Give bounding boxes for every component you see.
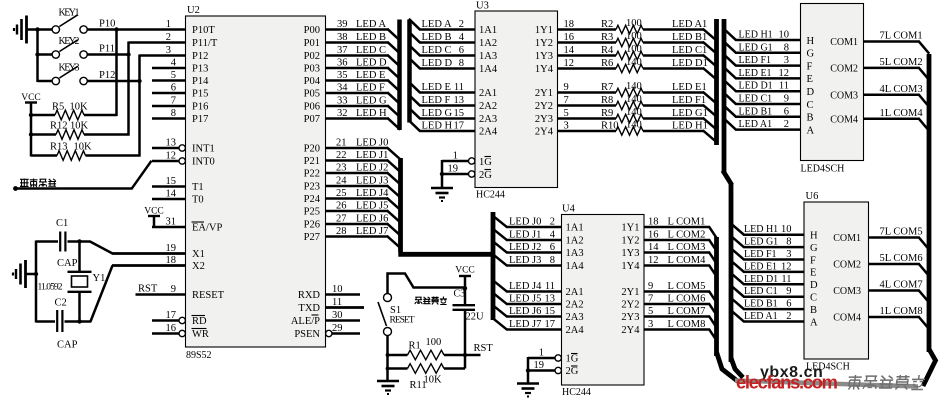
- svg-text:2: 2: [784, 119, 789, 130]
- resistor R3 100 net LED B1: [558, 31, 717, 54]
- svg-text:LED E: LED E: [356, 70, 385, 81]
- wire LED B to U3 pin 4: [409, 32, 475, 43]
- svg-text:LED D1: LED D1: [672, 58, 708, 69]
- pin label U6 A: [810, 317, 818, 328]
- svg-text:15: 15: [454, 108, 465, 119]
- svg-text:140: 140: [626, 57, 642, 68]
- svg-text:8: 8: [171, 108, 176, 119]
- svg-text:LED J5: LED J5: [356, 201, 388, 212]
- wire LED H to U3 pin 17: [409, 120, 475, 131]
- svg-text:17: 17: [166, 310, 177, 321]
- node S1/C3 junction: [463, 286, 467, 290]
- pin label U3 2Y4: [535, 127, 554, 138]
- pin 9 U4 2Y1 net L COM5: [621, 281, 716, 303]
- svg-text:LED C: LED C: [422, 45, 452, 56]
- svg-text:B: B: [810, 305, 817, 316]
- svg-text:4L COM3: 4L COM3: [880, 84, 923, 95]
- svg-text:4: 4: [550, 230, 556, 241]
- svg-text:G: G: [810, 243, 818, 254]
- svg-text:LED G1: LED G1: [739, 42, 773, 53]
- pin 17 U2 RD: [152, 310, 207, 327]
- wire LED D1 to U5 pin 11: [723, 80, 800, 92]
- svg-text:26: 26: [336, 201, 347, 212]
- svg-text:13: 13: [545, 294, 556, 305]
- pin COM4 U5 net 1L COM4: [830, 108, 929, 131]
- svg-text:89S52: 89S52: [186, 350, 212, 361]
- pin 1 U3 1G enable: [442, 151, 492, 169]
- node C1/Y1 junction: [77, 239, 81, 243]
- wire LED B1 to U6 pin 6: [730, 297, 804, 309]
- svg-text:LED G1: LED G1: [744, 237, 778, 248]
- pin 19 U2 X1: [112, 243, 205, 260]
- key switch KEY2: [38, 36, 88, 58]
- svg-text:1Y4: 1Y4: [535, 64, 554, 75]
- wire U3 enable vertical: [441, 160, 444, 188]
- svg-text:2: 2: [459, 19, 464, 30]
- svg-text:COM1: COM1: [833, 233, 861, 244]
- svg-text:LED J7: LED J7: [356, 226, 388, 237]
- svg-text:1Y2: 1Y2: [621, 236, 639, 247]
- svg-text:13: 13: [454, 95, 465, 106]
- svg-text:5: 5: [171, 70, 176, 81]
- svg-text:3: 3: [786, 249, 791, 260]
- svg-text:LED J2: LED J2: [509, 242, 541, 253]
- svg-text:9: 9: [786, 286, 791, 297]
- svg-text:R1: R1: [409, 341, 421, 352]
- pin 23 U2 P22 wire net LED J2: [304, 163, 401, 185]
- svg-text:3: 3: [648, 319, 653, 330]
- svg-text:1G: 1G: [479, 157, 492, 168]
- svg-text:2Y2: 2Y2: [621, 300, 639, 311]
- svg-text:39: 39: [337, 19, 348, 30]
- pin label U6 C: [810, 293, 817, 304]
- bus bar LED-A1 right upper: [722, 19, 727, 172]
- pin label U3 1A1: [479, 25, 497, 36]
- svg-text:1Y1: 1Y1: [535, 25, 553, 36]
- svg-text:P20: P20: [304, 144, 320, 155]
- svg-text:LED J4: LED J4: [356, 188, 389, 199]
- svg-text:2Y4: 2Y4: [621, 325, 640, 336]
- svg-text:15: 15: [166, 176, 177, 187]
- op-amp U2 89S52 body: [186, 5, 326, 361]
- ground (crystal): [13, 260, 36, 288]
- svg-text:L COM5: L COM5: [668, 281, 706, 292]
- wire R5 right vertical: [115, 30, 118, 117]
- svg-text:R13: R13: [50, 142, 68, 153]
- svg-text:12: 12: [648, 255, 659, 266]
- resistor R4 100 net LED C1: [558, 44, 717, 67]
- label pulse input (hanzi): [20, 179, 56, 188]
- pin label U4 2A3: [566, 312, 584, 323]
- svg-text:10: 10: [781, 224, 792, 235]
- wire key rail vertical: [36, 29, 39, 83]
- pin label U4 1A4: [566, 261, 585, 272]
- svg-text:LED H: LED H: [356, 108, 387, 119]
- svg-text:4L COM7: 4L COM7: [880, 280, 923, 291]
- svg-text:10: 10: [332, 284, 343, 295]
- node U3 enable junction: [440, 172, 444, 176]
- watermark elecfans.com: [736, 372, 838, 393]
- pin 1 U4 1G enable: [528, 348, 579, 365]
- svg-text:HC244: HC244: [562, 387, 591, 398]
- svg-text:R3: R3: [601, 32, 613, 43]
- pin 21 U2 P20 wire net LED J0: [304, 138, 401, 160]
- svg-text:A: A: [807, 125, 815, 136]
- pin label U4 2A1: [566, 287, 584, 298]
- pin label U3 2Y2: [535, 101, 553, 112]
- svg-text:COM4: COM4: [833, 313, 861, 324]
- svg-text:T1: T1: [192, 182, 204, 193]
- svg-text:VCC: VCC: [455, 266, 475, 276]
- ground (keys): [14, 16, 38, 44]
- node P12/R13 junction: [137, 79, 141, 83]
- svg-text:L COM1: L COM1: [668, 217, 706, 228]
- bus bar LED-A1 jog: [723, 171, 732, 186]
- pin label U4 1A3: [566, 248, 584, 259]
- svg-text:140: 140: [626, 81, 642, 92]
- pin 12 U4 1Y4 net L COM4: [621, 255, 716, 277]
- label reset circuit (hanzi): [415, 297, 447, 305]
- svg-text:D: D: [807, 87, 815, 98]
- svg-text:LED J3: LED J3: [509, 255, 541, 266]
- pin 19 U3 2G enable: [442, 164, 492, 182]
- svg-text:LED J5: LED J5: [509, 294, 541, 305]
- svg-text:LED C: LED C: [356, 45, 386, 56]
- pin label U3 2A2: [479, 101, 497, 112]
- wire R12 right vertical: [127, 55, 130, 136]
- key switch KEY3: [38, 63, 88, 85]
- svg-text:LED J1: LED J1: [356, 150, 388, 161]
- wire LED C to U3 pin 6: [409, 45, 475, 56]
- svg-text:LED D1: LED D1: [739, 81, 773, 92]
- pin label U5 A: [807, 125, 815, 136]
- svg-text:LED H1: LED H1: [672, 121, 708, 132]
- wire crystal left rail: [35, 241, 38, 323]
- svg-text:LED E1: LED E1: [672, 82, 707, 93]
- wire net P10 to pin1: [87, 19, 185, 30]
- wire LED F1 to U6 pin 3: [730, 248, 804, 260]
- svg-text:2Y1: 2Y1: [621, 287, 639, 298]
- pin label U3 1A3: [479, 51, 497, 62]
- wire LED A1 to U6 pin 2: [730, 310, 804, 322]
- svg-text:L COM4: L COM4: [668, 255, 707, 266]
- svg-text:28: 28: [336, 226, 347, 237]
- bus bar P2 vertical: [398, 158, 403, 252]
- pin 34 U2 P05 wire net LED F: [304, 83, 401, 105]
- wire LED J2 to U4 pin 6: [492, 241, 561, 253]
- svg-text:R9: R9: [601, 108, 613, 119]
- svg-text:2: 2: [166, 32, 171, 43]
- svg-text:9: 9: [784, 94, 789, 105]
- svg-text:LED D1: LED D1: [744, 274, 778, 285]
- svg-text:1Y1: 1Y1: [621, 223, 639, 234]
- svg-text:COM4: COM4: [830, 114, 858, 125]
- pin label U3 2Y3: [535, 114, 553, 125]
- node pulse input terminal: [13, 186, 18, 191]
- svg-text:L COM2: L COM2: [668, 230, 706, 241]
- svg-text:P05: P05: [304, 89, 320, 100]
- pin 35 U2 P04 wire net LED E: [304, 70, 401, 92]
- svg-text:RESET: RESET: [192, 290, 225, 301]
- switch S1 RESET: [378, 294, 415, 336]
- svg-text:ALE/P: ALE/P: [291, 316, 320, 327]
- pin 31 U2 EA/VP: [152, 217, 222, 234]
- wire net P11: [87, 44, 129, 55]
- pin label U3 1Y2: [535, 38, 553, 49]
- wire X2 diagonal: [90, 266, 186, 323]
- bus bar COM bottom hook: [923, 349, 936, 386]
- svg-text:P12: P12: [192, 51, 208, 62]
- svg-text:30: 30: [332, 310, 343, 321]
- svg-text:LED C1: LED C1: [672, 45, 707, 56]
- pin COM2 U5 net 5L COM2: [830, 57, 929, 80]
- svg-text:P17: P17: [192, 114, 208, 125]
- svg-text:C: C: [807, 100, 814, 111]
- svg-text:1G: 1G: [566, 354, 579, 365]
- svg-text:22: 22: [336, 150, 347, 161]
- svg-text:11: 11: [454, 82, 464, 93]
- svg-text:LED J0: LED J0: [356, 138, 388, 149]
- pin 33 U2 P06 wire net LED G: [304, 96, 401, 118]
- svg-text:RXD: RXD: [298, 290, 321, 301]
- svg-text:2A3: 2A3: [566, 312, 584, 323]
- svg-text:16: 16: [564, 32, 575, 43]
- svg-text:LED A: LED A: [422, 19, 452, 30]
- svg-text:F: F: [807, 61, 813, 72]
- svg-text:1A4: 1A4: [479, 64, 498, 75]
- pin 18 U2 X2: [112, 255, 205, 272]
- svg-text:P15: P15: [192, 89, 208, 100]
- wire LED B1 to U5 pin 6: [723, 105, 800, 117]
- svg-text:13: 13: [166, 138, 177, 149]
- power VCC (EA pin): [144, 207, 164, 228]
- svg-text:R12: R12: [50, 121, 68, 132]
- svg-text:19: 19: [534, 360, 545, 371]
- wire LED J7 to U4 pin 17: [492, 318, 561, 330]
- pin 3 U4 2Y4 net L COM8: [621, 319, 716, 341]
- svg-text:L COM8: L COM8: [668, 319, 706, 330]
- svg-text:RESET: RESET: [390, 316, 415, 326]
- resistor R8 140 net LED F1: [558, 94, 717, 117]
- svg-text:2Y4: 2Y4: [535, 127, 554, 138]
- svg-text:COM2: COM2: [833, 260, 861, 271]
- svg-text:P07: P07: [304, 114, 320, 125]
- resistor R11 10K: [388, 355, 466, 391]
- svg-text:3: 3: [564, 121, 569, 132]
- wire LED J1 to U4 pin 4: [492, 228, 561, 240]
- pin 25 U2 P24 wire net LED J4: [304, 188, 401, 210]
- svg-text:35: 35: [337, 70, 348, 81]
- pin label U5 D: [807, 87, 815, 98]
- pin 38 U2 P01 wire net LED B: [304, 32, 401, 54]
- svg-text:1Y4: 1Y4: [621, 261, 640, 272]
- svg-text:P01: P01: [304, 38, 320, 49]
- pin 39 U2 P00 wire net LED A: [304, 19, 401, 41]
- pin label U5 B: [807, 113, 814, 124]
- wire S1 bottom vertical: [386, 335, 389, 381]
- svg-text:1A2: 1A2: [479, 38, 497, 49]
- pin label U3 1Y3: [535, 51, 553, 62]
- svg-text:P03: P03: [304, 64, 320, 75]
- svg-text:1A4: 1A4: [566, 261, 585, 272]
- resistor R6 140 net LED D1: [558, 57, 717, 80]
- pin label U3 1Y4: [535, 64, 554, 75]
- svg-text:E: E: [807, 74, 813, 85]
- svg-text:18: 18: [564, 19, 575, 30]
- pin 18 U4 1Y1 net L COM1: [621, 217, 716, 239]
- pin label U4 2A2: [566, 300, 584, 311]
- bus bar P2 horizontal: [398, 252, 493, 257]
- svg-text:COM1: COM1: [830, 37, 858, 48]
- svg-text:R8: R8: [601, 95, 613, 106]
- svg-text:P10: P10: [99, 19, 115, 30]
- svg-text:10K: 10K: [74, 142, 93, 153]
- pin label U6 B: [810, 305, 817, 316]
- pin label U5 F: [807, 61, 813, 72]
- svg-text:F: F: [810, 255, 816, 266]
- pin label U5 C: [807, 100, 814, 111]
- svg-text:KEY3: KEY3: [59, 63, 80, 74]
- svg-text:11: 11: [545, 281, 555, 292]
- svg-text:11: 11: [779, 81, 789, 92]
- pin 5 U4 2Y3 net L COM7: [621, 306, 716, 328]
- pin 16 U2 WR: [152, 323, 209, 340]
- svg-text:6: 6: [171, 83, 176, 94]
- svg-text:5L COM6: 5L COM6: [880, 253, 923, 264]
- svg-text:U2: U2: [187, 5, 200, 16]
- svg-text:31: 31: [166, 217, 177, 228]
- node R1/RST junction: [463, 353, 467, 357]
- svg-text:P26: P26: [304, 220, 320, 231]
- svg-text:15: 15: [545, 306, 556, 317]
- svg-text:2A1: 2A1: [479, 88, 497, 99]
- svg-text:C1: C1: [56, 218, 68, 229]
- svg-text:LED J3: LED J3: [356, 176, 388, 187]
- svg-text:LED H1: LED H1: [739, 30, 773, 41]
- svg-text:10K: 10K: [70, 121, 89, 132]
- svg-text:14: 14: [648, 242, 659, 253]
- pin 15 U2 T1: [152, 176, 204, 193]
- svg-text:RD: RD: [192, 316, 207, 327]
- pin 10 U2 RXD: [298, 284, 360, 301]
- wire R13 right vertical: [138, 81, 141, 157]
- bus bar P0 right: [407, 20, 412, 123]
- pin 26 U2 P25 wire net LED J5: [304, 201, 401, 223]
- svg-text:U4: U4: [562, 204, 576, 215]
- svg-text:19: 19: [448, 164, 459, 175]
- capacitor C2: [36, 298, 91, 351]
- pin label U4 2A4: [566, 325, 585, 336]
- svg-text:P22: P22: [304, 169, 320, 180]
- resistor R1 100: [388, 337, 466, 360]
- svg-text:9: 9: [564, 82, 569, 93]
- capacitor C3 22U: [453, 289, 485, 356]
- pin 3 U2 P12: [166, 45, 209, 62]
- pin label U6 E: [810, 268, 816, 279]
- bus bar P0 left: [397, 20, 402, 131]
- node S1/R1 junction: [386, 353, 390, 357]
- svg-text:12: 12: [564, 58, 575, 69]
- svg-text:16: 16: [648, 230, 659, 241]
- node key rail junction 2: [35, 52, 39, 56]
- svg-text:6: 6: [784, 106, 789, 117]
- label net RST at pin 9: [138, 284, 158, 295]
- svg-text:A: A: [810, 317, 818, 328]
- svg-text:LED4SCH: LED4SCH: [801, 164, 845, 175]
- wire LED D1 to U6 pin 11: [730, 273, 804, 285]
- svg-text:T0: T0: [192, 195, 204, 206]
- pin label U5 H: [807, 36, 815, 47]
- crystal Y1: [68, 242, 106, 322]
- pin COM1 U6 net 7L COM5: [833, 227, 929, 250]
- svg-text:H: H: [810, 231, 818, 242]
- wire LED E1 to U6 pin 12: [730, 260, 804, 272]
- resistor R9 140 net LED G1: [558, 107, 717, 130]
- svg-text:LED C1: LED C1: [744, 286, 778, 297]
- svg-text:P04: P04: [304, 76, 321, 87]
- svg-text:PSEN: PSEN: [294, 329, 320, 340]
- svg-text:Y1: Y1: [93, 273, 106, 284]
- svg-text:P21: P21: [304, 156, 320, 167]
- svg-text:10K: 10K: [70, 102, 89, 113]
- node P10/R5 junction: [114, 27, 118, 31]
- svg-text:4: 4: [459, 32, 465, 43]
- svg-text:L COM7: L COM7: [668, 306, 706, 317]
- wire net RST: [465, 343, 493, 355]
- svg-text:2A1: 2A1: [566, 287, 584, 298]
- svg-text:1Y2: 1Y2: [535, 38, 553, 49]
- svg-text:RST: RST: [474, 343, 494, 354]
- pin COM2 U6 net 5L COM6: [833, 253, 929, 276]
- pin 9 U2 RESET: [136, 284, 225, 301]
- bus bar LED-A1 left: [714, 19, 719, 145]
- pin label U3 1A4: [479, 64, 498, 75]
- pin 7 U2 P16: [152, 96, 208, 113]
- svg-text:LED D: LED D: [422, 58, 453, 69]
- svg-text:CAP: CAP: [57, 340, 78, 351]
- svg-text:1L COM4: 1L COM4: [880, 108, 924, 119]
- svg-text:5L COM2: 5L COM2: [880, 57, 923, 68]
- node key rail junction 1: [35, 27, 39, 31]
- svg-text:B: B: [807, 113, 814, 124]
- bus bar LED-A1 bottom curve: [731, 358, 743, 378]
- pin label U4 1A1: [566, 223, 584, 234]
- pin 30 U2 ALE/P: [291, 310, 360, 327]
- svg-text:HC244: HC244: [476, 190, 505, 201]
- svg-text:LED H: LED H: [422, 121, 453, 132]
- svg-text:LED B1: LED B1: [672, 32, 707, 43]
- svg-text:6: 6: [550, 242, 555, 253]
- svg-text:38: 38: [337, 32, 348, 43]
- svg-text:12: 12: [166, 151, 177, 162]
- wire LED F1 to U5 pin 3: [723, 54, 800, 66]
- wire LED J3 to U4 pin 8: [492, 254, 561, 266]
- pin 2 U2 P11/T: [166, 32, 218, 49]
- power VCC (reset): [455, 266, 475, 306]
- svg-text:100: 100: [626, 31, 642, 42]
- svg-text:2A2: 2A2: [479, 101, 497, 112]
- svg-text:LED J4: LED J4: [509, 281, 542, 292]
- svg-text:8: 8: [784, 42, 789, 53]
- svg-text:P12: P12: [99, 70, 115, 81]
- svg-text:COM3: COM3: [833, 286, 861, 297]
- svg-text:LED E1: LED E1: [739, 68, 772, 79]
- svg-text:1A1: 1A1: [566, 223, 584, 234]
- key switch KEY1: [38, 8, 88, 34]
- pin label U6 F: [810, 255, 816, 266]
- svg-text:17: 17: [545, 319, 556, 330]
- resistor R5 10K: [31, 102, 117, 120]
